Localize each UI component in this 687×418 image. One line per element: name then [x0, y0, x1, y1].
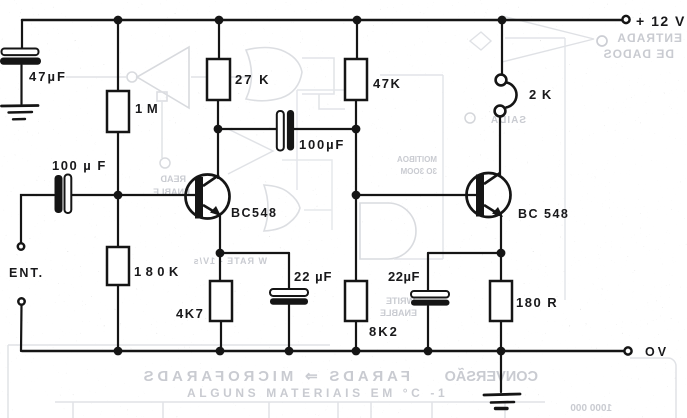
svg-text:3O 3OOM: 3O 3OOM: [400, 167, 437, 176]
ghost circle node mid-left (bleed-through): [160, 158, 170, 168]
ghost OR gate mid (bleed-through): [264, 185, 300, 231]
wire: 47uF branch top: [21, 20, 23, 48]
wire: coupling 100uF right: [294, 128, 356, 130]
node: coupling junction left: [214, 125, 223, 134]
svg-text:27 K: 27 K: [235, 72, 270, 87]
ghost wire verticals (bleed-through): [380, 38, 565, 300]
wire: 27K column / Q1 collector: [218, 20, 220, 59]
svg-text:4K7: 4K7: [176, 306, 204, 321]
ghost text READ ENABLE (mirrored bleed-through): [153, 174, 190, 197]
resistor R6 8K2: [345, 281, 367, 321]
wire: 2K to rail: [501, 20, 503, 74]
ground (right): [484, 394, 520, 409]
resistor R2 180K: [107, 247, 129, 285]
svg-text:47K: 47K: [373, 76, 401, 91]
svg-text:BC548: BC548: [231, 206, 277, 220]
ghost AND gate (bleed-through): [360, 203, 416, 259]
node: Q1 base junction: [114, 191, 123, 200]
resistor R4 47K: [345, 59, 367, 100]
wire: Q1 emitter down: [219, 216, 221, 253]
resistor R7 180R: [490, 281, 512, 321]
svg-text:22µF: 22µF: [388, 269, 420, 284]
capacitor C4 22uF: [270, 289, 308, 305]
svg-text:47µF: 47µF: [29, 69, 67, 84]
svg-text:+ 12 V: + 12 V: [636, 13, 686, 29]
svg-text:CONVERSÃO: CONVERSÃO: [445, 367, 538, 385]
wire: 2K to Q2 collector: [499, 117, 501, 176]
wire: emitter2 junction to 22uF: [428, 252, 501, 254]
svg-text:2 K: 2 K: [529, 87, 552, 102]
svg-text:ALGUNS MATERIAIS EM °C -1: ALGUNS MATERIAIS EM °C -1: [187, 386, 448, 400]
svg-text:W RATE - 1V/s: W RATE - 1V/s: [193, 256, 267, 266]
ghost text ENTRADA DE DADOS (mirrored bleed-through): [597, 31, 682, 61]
capacitor C5 22uF (second): [411, 291, 450, 306]
resistor R1 1M: [107, 91, 129, 132]
MAIN CIRCUIT: [21, 20, 624, 392]
wire: ENT lower terminal to rail: [20, 305, 23, 351]
node: top rail junctions: [114, 16, 507, 25]
node: Q2 base junction: [352, 191, 361, 200]
wire: 47uF to ground: [20, 65, 22, 104]
svg-text:OV: OV: [645, 345, 669, 359]
wire: 4K7 connections: [219, 253, 221, 281]
svg-text:1 M: 1 M: [135, 101, 158, 116]
node: coupling junction right: [352, 125, 361, 134]
svg-text:BC 548: BC 548: [518, 207, 569, 221]
wire: bottom 0V rail: [22, 350, 624, 353]
ghost tiny text blocks (bleed-through): [193, 155, 437, 318]
wire: +12V top rail: [22, 19, 622, 22]
wire: 180R connections: [500, 253, 502, 281]
capacitor C1 47uF: [0, 49, 41, 65]
node: Q1 emitter junction: [216, 249, 225, 258]
terminal ENT lower: [18, 298, 24, 304]
wire: 47K column: [356, 20, 358, 59]
node: Q2 emitter junction: [497, 249, 506, 258]
node: bottom rail junctions: [114, 347, 506, 356]
svg-text:1000 000: 1000 000: [570, 403, 612, 414]
wire: input cap to Q1 base: [72, 194, 196, 196]
svg-text:180K: 180K: [134, 264, 183, 279]
terminal +12V: [622, 16, 629, 23]
terminal ENT upper: [18, 243, 24, 249]
svg-text:ENABLE: ENABLE: [380, 308, 417, 318]
capacitor C2 100uF (input): [55, 175, 72, 214]
ground (left): [2, 106, 39, 120]
transistor Q2 BC548: [467, 173, 511, 217]
terminal 0V: [624, 347, 631, 354]
ghost OR gate top middle (bleed-through): [246, 48, 345, 110]
wire: ENT input to coupling cap: [21, 195, 54, 243]
ghost table frame (bleed-through): [8, 345, 676, 418]
ghost text SAIDA (mirrored bleed-through): [465, 113, 526, 126]
svg-text:FARADS ⇒ MICROFARADS: FARADS ⇒ MICROFARADS: [140, 368, 410, 385]
wire: right ground drop: [500, 351, 502, 392]
wire: Q2 emitter down: [500, 215, 502, 253]
ghost triangle top right (bleed-through): [470, 16, 594, 62]
svg-text:MOITIBOA: MOITIBOA: [397, 155, 437, 164]
svg-text:WRITE: WRITE: [386, 296, 415, 306]
resistor R3 27K: [207, 59, 230, 100]
ghost inverter gate (bleed-through): [66, 47, 252, 158]
capacitor C3 100uF (coupling): [277, 110, 294, 151]
svg-text:22 µF: 22 µF: [294, 269, 333, 284]
resistor R8 2K (socket symbol): [495, 75, 517, 117]
transistor Q1 BC548: [186, 175, 230, 219]
wire: coupling 100uF left: [218, 128, 276, 130]
svg-text:READ: READ: [160, 174, 186, 184]
svg-text:SAIDA: SAIDA: [490, 115, 526, 126]
svg-text:180 R: 180 R: [516, 295, 558, 310]
svg-text:100 µ F: 100 µ F: [52, 158, 107, 173]
wire: 1M column: [117, 20, 119, 91]
wire: Q2 base: [356, 194, 476, 196]
svg-text:8K2: 8K2: [369, 324, 399, 339]
svg-text:ENT.: ENT.: [9, 266, 44, 280]
svg-text:100µF: 100µF: [299, 137, 345, 152]
resistor R5 4K7: [210, 281, 232, 321]
svg-text:DE DADOS: DE DADOS: [603, 47, 674, 61]
wire: emitter junction to 22uF: [220, 252, 289, 254]
svg-text:ENTRADA: ENTRADA: [616, 31, 682, 45]
